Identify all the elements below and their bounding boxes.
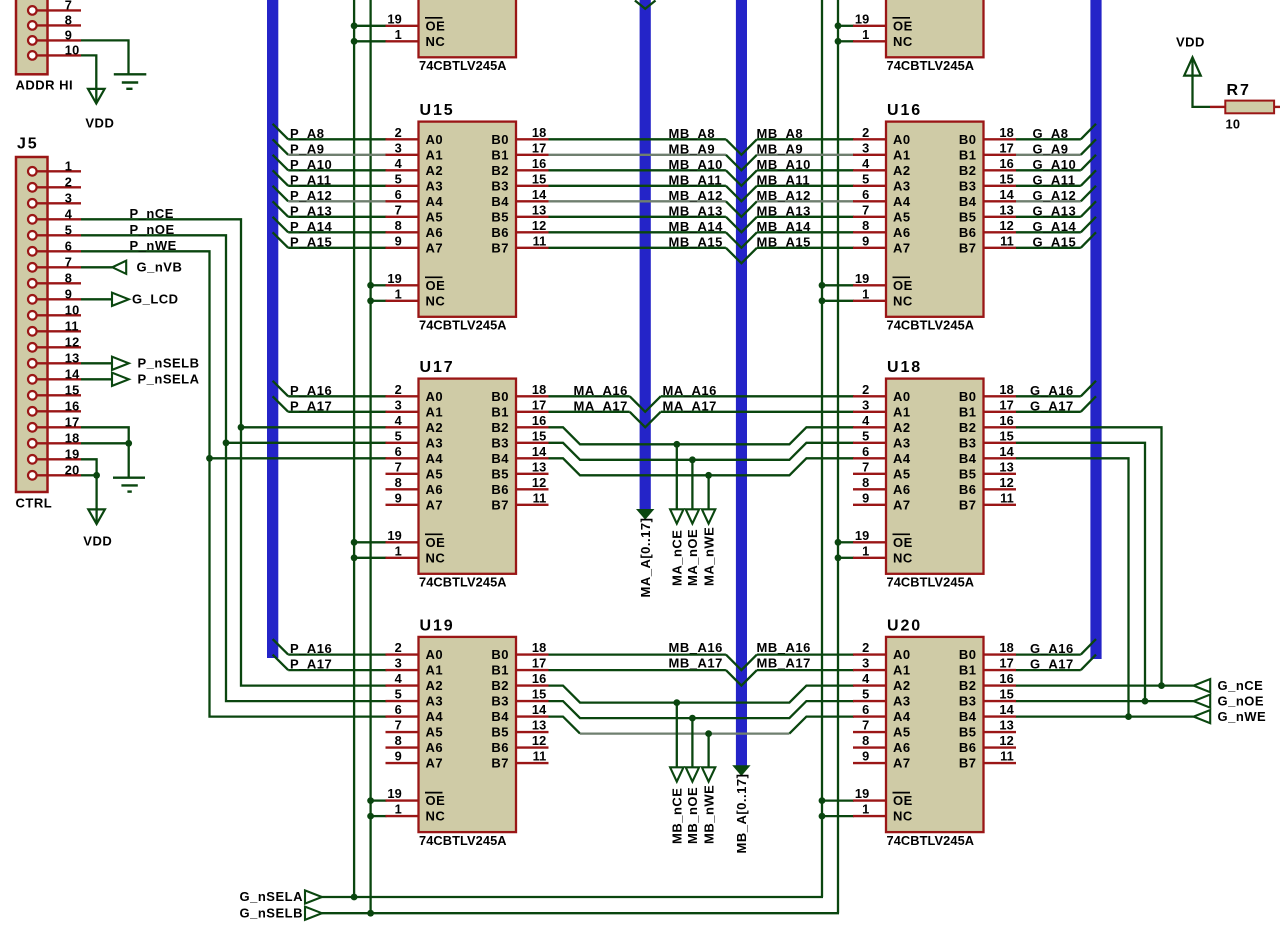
- svg-text:7: 7: [395, 459, 402, 474]
- wire U19.B2 to U20.A2 (jogged net): [549, 686, 855, 703]
- svg-text:B2: B2: [959, 163, 977, 178]
- IC U20 74CBTLV245A body: [886, 637, 984, 832]
- svg-text:14: 14: [999, 187, 1014, 202]
- svg-text:B4: B4: [959, 709, 977, 724]
- svg-text:B5: B5: [959, 466, 977, 481]
- svg-text:ADDR HI: ADDR HI: [16, 78, 74, 93]
- wire P_A15 bus entry from P bus: [273, 232, 289, 248]
- svg-text:MB_nCE: MB_nCE: [670, 788, 685, 844]
- svg-text:MA_A17: MA_A17: [663, 398, 717, 413]
- wire U19.B3 to U20.A3 (jogged net): [549, 701, 855, 718]
- svg-text:MB_nOE: MB_nOE: [685, 787, 700, 844]
- wire MB_A9 from U15.B1 to MB bus: [549, 154, 726, 156]
- svg-text:3: 3: [395, 397, 402, 412]
- svg-text:A0: A0: [426, 389, 444, 404]
- wire P_A11 to U15.A3: [288, 185, 386, 187]
- svg-text:5: 5: [862, 428, 869, 443]
- junction P_nOE / U17.A3: [223, 439, 230, 446]
- wire P_A17 bus entry to U19.A1: [273, 655, 289, 671]
- svg-text:11: 11: [1000, 233, 1014, 248]
- svg-text:B0: B0: [491, 647, 509, 662]
- svg-text:MB_A11: MB_A11: [669, 172, 723, 187]
- svg-text:8: 8: [862, 218, 869, 233]
- svg-text:G_nOE: G_nOE: [1218, 693, 1265, 708]
- svg-text:MB_A15: MB_A15: [757, 234, 811, 249]
- svg-text:A3: A3: [893, 435, 911, 450]
- wire P_A13 bus entry from P bus: [273, 201, 289, 217]
- svg-text:16: 16: [999, 671, 1014, 686]
- terminal MA_nCE (down arrow): [670, 509, 683, 523]
- terminal G_nSELB (right-pointing): [305, 907, 322, 920]
- svg-text:A6: A6: [893, 740, 911, 755]
- svg-text:16: 16: [65, 398, 80, 413]
- svg-text:B6: B6: [959, 482, 977, 497]
- svg-text:18: 18: [65, 430, 80, 445]
- svg-text:A0: A0: [893, 132, 911, 147]
- junction MB_nCE: [673, 699, 680, 706]
- wire G_A15 bus entry at G bus: [1081, 232, 1096, 248]
- svg-text:3: 3: [395, 140, 402, 155]
- terminal P_nSELB (right-pointing): [112, 357, 129, 370]
- svg-text:12: 12: [532, 475, 547, 490]
- svg-text:9: 9: [862, 490, 869, 505]
- svg-text:U15: U15: [420, 102, 455, 119]
- svg-text:9: 9: [65, 27, 72, 42]
- resistor R7 right pin: [1274, 106, 1280, 108]
- svg-text:G_nCE: G_nCE: [1218, 678, 1264, 693]
- terminal MB_nWE (down arrow): [702, 767, 715, 781]
- svg-text:A1: A1: [426, 663, 444, 678]
- svg-text:12: 12: [532, 733, 547, 748]
- wire G_A17 from U18.B1 to G bus: [1016, 411, 1081, 413]
- svg-text:P_A16: P_A16: [290, 641, 332, 656]
- svg-text:NC: NC: [426, 550, 446, 565]
- IC U17 OE pin stub (pin 19): [386, 541, 419, 543]
- wire MA_A16 from U17.B0 to MA bus: [549, 395, 630, 397]
- wire MB_A15 bus entry V at MB bus: [726, 248, 757, 263]
- svg-text:7: 7: [862, 718, 869, 733]
- junction G_nSELB / left vertical: [367, 910, 374, 917]
- svg-text:19: 19: [387, 786, 402, 801]
- svg-text:OE: OE: [426, 278, 446, 293]
- svg-text:4: 4: [395, 671, 403, 686]
- svg-text:B2: B2: [491, 678, 509, 693]
- svg-text:A3: A3: [426, 435, 444, 450]
- wire MB_A8 bus entry V at MB bus: [726, 139, 757, 155]
- svg-text:A6: A6: [893, 225, 911, 240]
- junction G_nSELA / left vertical: [351, 894, 358, 901]
- wire G_A9 from U16.B1 to G bus: [1016, 154, 1081, 156]
- wire U17.B3 to U18.A3 (jogged net): [549, 443, 855, 460]
- svg-text:74CBTLV245A: 74CBTLV245A: [887, 833, 975, 848]
- IC U18 74CBTLV245A body: [886, 379, 984, 574]
- svg-text:B4: B4: [959, 451, 977, 466]
- svg-text:MB_nWE: MB_nWE: [701, 785, 716, 844]
- svg-text:U18: U18: [887, 359, 922, 376]
- wire G_A17 from U20.B1 to G bus: [1016, 669, 1081, 671]
- bus G_A[0..17] (right vertical blue bus): [1090, 0, 1101, 659]
- svg-text:MB_A12: MB_A12: [669, 188, 723, 203]
- svg-text:A0: A0: [893, 647, 911, 662]
- connector ADDR HI pin stubs: [36, 9, 81, 11]
- svg-text:OE: OE: [893, 793, 913, 808]
- wire U17.B2 to U18.A2 (jogged net): [549, 427, 855, 444]
- bus MA_A[0..17] top entry chevron: [635, 1, 656, 9]
- svg-text:74CBTLV245A: 74CBTLV245A: [419, 58, 507, 73]
- svg-text:2: 2: [862, 382, 869, 397]
- wire U19 OE to select vertical: [371, 799, 387, 801]
- svg-text:A2: A2: [426, 678, 444, 693]
- svg-text:1: 1: [862, 802, 869, 817]
- svg-text:9: 9: [395, 233, 402, 248]
- svg-text:B4: B4: [959, 194, 977, 209]
- svg-text:1: 1: [65, 158, 72, 173]
- wire U20 NC to select vertical: [822, 815, 854, 817]
- svg-text:16: 16: [532, 413, 547, 428]
- bus MA_A[0..17] (vertical blue bus): [640, 0, 651, 511]
- svg-text:NC: NC: [426, 809, 446, 824]
- wire ADDR HI pin10 to VDD: [81, 55, 96, 102]
- wire J5 pin9 to terminal G_LCD: [81, 298, 112, 300]
- junction J5 pin18: [125, 440, 132, 447]
- junction U15 OE: [367, 282, 374, 289]
- svg-text:NC: NC: [893, 550, 913, 565]
- svg-text:G_A14: G_A14: [1033, 219, 1077, 234]
- junction U19 NC: [367, 813, 374, 820]
- svg-text:G_A13: G_A13: [1033, 203, 1077, 218]
- wire MB_A8 from U15.B0 to MB bus: [549, 138, 726, 140]
- wire U13 OE to select vertical: [354, 25, 386, 27]
- terminal MA_nOE (down arrow): [686, 509, 699, 523]
- junction MA_nWE: [705, 472, 712, 479]
- junction MA_nCE: [673, 441, 680, 448]
- svg-text:B3: B3: [959, 694, 977, 709]
- svg-text:18: 18: [532, 125, 547, 140]
- svg-text:U19: U19: [420, 617, 455, 634]
- wire P_A9 bus entry from P bus: [273, 139, 289, 155]
- wire U20 OE to select vertical: [822, 799, 854, 801]
- ground symbol (top left): [114, 73, 147, 75]
- svg-text:G_A10: G_A10: [1033, 157, 1077, 172]
- svg-text:9: 9: [862, 233, 869, 248]
- svg-text:11: 11: [533, 749, 547, 764]
- svg-text:A5: A5: [426, 466, 444, 481]
- svg-text:4: 4: [862, 671, 870, 686]
- svg-text:19: 19: [387, 271, 402, 286]
- wire MB_A13 bus entry V at MB bus: [726, 217, 757, 233]
- wire MB_A16 from U19.B0 to MB bus: [549, 653, 726, 655]
- svg-text:G_A11: G_A11: [1033, 172, 1076, 187]
- IC U20 right pin stubs (pins 18-11): [984, 653, 1017, 655]
- svg-text:B0: B0: [491, 389, 509, 404]
- svg-text:19: 19: [387, 11, 402, 26]
- wire P_A14 bus entry from P bus: [273, 217, 289, 233]
- wire G_A11 from U16.B3 to G bus: [1016, 185, 1081, 187]
- wire U18.B2 right and down to G_nCE row: [1016, 427, 1162, 685]
- svg-text:4: 4: [862, 413, 870, 428]
- svg-text:A7: A7: [893, 497, 911, 512]
- wire P_A9 to U15.A1: [288, 154, 386, 156]
- wire MB_A13 from U15.B5 to MB bus: [549, 216, 726, 218]
- svg-text:G_A15: G_A15: [1033, 234, 1077, 249]
- connector J5 pin circles: [28, 167, 37, 176]
- svg-text:74CBTLV245A: 74CBTLV245A: [419, 575, 507, 590]
- svg-text:12: 12: [999, 475, 1014, 490]
- wire P_A12 bus entry from P bus: [273, 186, 289, 202]
- wire into VDD symbol tip: [95, 509, 97, 522]
- terminal MB_nOE (down arrow): [686, 767, 699, 781]
- svg-text:B3: B3: [959, 178, 977, 193]
- svg-text:B1: B1: [491, 147, 509, 162]
- svg-text:B2: B2: [959, 420, 977, 435]
- ground symbol (below J5): [113, 477, 145, 479]
- wire G_nSELB horizontal run: [305, 912, 839, 914]
- svg-text:6: 6: [395, 702, 402, 717]
- svg-text:6: 6: [862, 444, 869, 459]
- IC U16 OE pin stub (pin 19): [853, 284, 886, 286]
- wire J5 pin14 to terminal P_nSELA: [81, 378, 112, 380]
- svg-text:15: 15: [532, 428, 547, 443]
- svg-text:A4: A4: [893, 451, 911, 466]
- junction U16 OE: [819, 282, 826, 289]
- bus MA_A[0..17] end arrow: [636, 509, 654, 520]
- wire U20.B2 to terminal G_nCE: [1016, 684, 1194, 686]
- wire MB_A17 from MB bus to U20.A1: [757, 669, 854, 671]
- svg-text:5: 5: [65, 222, 72, 237]
- wire G_A12 from U16.B4 to G bus: [1016, 200, 1081, 202]
- svg-text:P_nOE: P_nOE: [130, 222, 175, 237]
- wire MB_A8 from MB bus to U16.A0: [757, 138, 854, 140]
- svg-text:A1: A1: [893, 663, 911, 678]
- svg-text:16: 16: [999, 413, 1014, 428]
- connector ADDR HI (partial, pins 7-10): [16, 0, 48, 74]
- connector J5 (20-pin header): [16, 157, 48, 492]
- wire net G_nSELB left vertical (x=371): [369, 0, 371, 913]
- svg-text:MA_A17: MA_A17: [574, 398, 628, 413]
- wire G_A13 from U16.B5 to G bus: [1016, 216, 1081, 218]
- connector J5 pin stubs: [36, 170, 81, 172]
- svg-text:R7: R7: [1227, 82, 1251, 99]
- wire U16 OE to select vertical: [822, 284, 854, 286]
- svg-text:2: 2: [395, 382, 402, 397]
- junction at (1145.0,701.1): [1142, 698, 1149, 705]
- svg-text:CTRL: CTRL: [16, 496, 53, 511]
- IC U17 74CBTLV245A body: [419, 379, 517, 574]
- svg-text:A7: A7: [893, 756, 911, 771]
- svg-text:16: 16: [532, 156, 547, 171]
- junction MA_nOE: [689, 456, 696, 463]
- IC U14 74CBTLV245A body: [886, 0, 984, 57]
- svg-text:8: 8: [65, 12, 72, 27]
- wire net G_nSELA right vertical (x=822): [821, 0, 823, 897]
- svg-text:P_A17: P_A17: [290, 657, 332, 672]
- svg-text:18: 18: [532, 382, 547, 397]
- wire P_A8 to U15.A0: [288, 138, 386, 140]
- power VDD symbol (below J5, down triangle): [88, 509, 105, 524]
- svg-text:P_nSELB: P_nSELB: [138, 356, 200, 371]
- svg-text:MB_A13: MB_A13: [757, 203, 811, 218]
- wire MB_A10 from U15.B2 to MB bus: [549, 169, 726, 171]
- IC U16 74CBTLV245A body: [886, 122, 984, 317]
- svg-text:A6: A6: [426, 225, 444, 240]
- svg-text:G_A16: G_A16: [1030, 641, 1074, 656]
- svg-text:8: 8: [65, 270, 72, 285]
- wire MB_A10 bus entry V at MB bus: [726, 170, 757, 186]
- svg-text:A1: A1: [426, 147, 444, 162]
- IC U14 NC pin stub (pin 1): [853, 40, 886, 42]
- svg-text:12: 12: [999, 733, 1014, 748]
- wire MB_A11 from MB bus to U16.A3: [757, 185, 854, 187]
- svg-text:74CBTLV245A: 74CBTLV245A: [419, 833, 507, 848]
- junction U16 NC: [819, 297, 826, 304]
- svg-text:A6: A6: [893, 482, 911, 497]
- wire P_A16 bus entry to U17.A0: [273, 381, 289, 397]
- connector ADDR HI pin circles: [28, 6, 37, 15]
- svg-text:MA_A[0..17]: MA_A[0..17]: [638, 518, 653, 598]
- svg-text:17: 17: [532, 656, 547, 671]
- power VDD symbol (top left, down triangle): [88, 89, 105, 104]
- svg-text:7: 7: [395, 202, 402, 217]
- IC U20 left pin stubs (pins 2-9): [853, 653, 886, 655]
- svg-text:17: 17: [999, 656, 1014, 671]
- svg-text:B1: B1: [959, 663, 977, 678]
- wire G_A16 from U20.B0 to G bus: [1016, 653, 1081, 655]
- svg-text:8: 8: [395, 218, 402, 233]
- wire P_A11 bus entry from P bus: [273, 170, 289, 186]
- svg-text:12: 12: [65, 334, 80, 349]
- svg-text:B0: B0: [491, 132, 509, 147]
- svg-text:7: 7: [862, 459, 869, 474]
- svg-text:B6: B6: [491, 482, 509, 497]
- wire G_A14 from U16.B6 to G bus: [1016, 231, 1081, 233]
- svg-text:A4: A4: [426, 451, 444, 466]
- svg-text:P_nSELA: P_nSELA: [138, 372, 200, 387]
- IC U19 left pin stubs (pins 2-9): [386, 653, 419, 655]
- junction U20 NC: [819, 813, 826, 820]
- svg-text:7: 7: [395, 718, 402, 733]
- svg-text:A4: A4: [426, 194, 444, 209]
- svg-text:NC: NC: [426, 293, 446, 308]
- svg-text:G_nVB: G_nVB: [137, 260, 183, 275]
- svg-text:16: 16: [999, 156, 1014, 171]
- terminal G_nCE (left-pointing input triangle): [1194, 679, 1211, 692]
- svg-text:13: 13: [65, 350, 80, 365]
- svg-text:5: 5: [395, 687, 402, 702]
- svg-text:P_A16: P_A16: [290, 383, 332, 398]
- svg-text:1: 1: [395, 802, 402, 817]
- bus MB_A[0..17] (vertical blue bus): [736, 0, 747, 767]
- svg-text:MB_A17: MB_A17: [757, 656, 811, 671]
- svg-text:5: 5: [395, 171, 402, 186]
- svg-text:A2: A2: [426, 420, 444, 435]
- wire G_A12 bus entry at G bus: [1081, 186, 1096, 202]
- svg-text:B7: B7: [959, 240, 977, 255]
- svg-text:10: 10: [65, 42, 80, 57]
- wire P_A17 bus entry to U17.A1: [273, 396, 289, 412]
- svg-text:G_LCD: G_LCD: [132, 292, 179, 307]
- wire MB_A15 from U15.B7 to MB bus: [549, 247, 726, 249]
- wire MB_A17 from U19.B1 to MB bus: [549, 669, 726, 671]
- IC U17 NC pin stub (pin 1): [386, 557, 419, 559]
- svg-text:1: 1: [862, 543, 869, 558]
- svg-text:16: 16: [532, 671, 547, 686]
- wire J5 pin13 to terminal P_nSELB: [81, 362, 112, 364]
- svg-text:4: 4: [862, 156, 870, 171]
- junction U17 OE: [351, 539, 358, 546]
- svg-text:19: 19: [855, 528, 870, 543]
- svg-text:11: 11: [533, 233, 547, 248]
- svg-text:4: 4: [395, 413, 403, 428]
- junction MB_nOE: [689, 715, 696, 722]
- svg-text:1: 1: [862, 27, 869, 42]
- svg-text:B1: B1: [491, 404, 509, 419]
- svg-text:1: 1: [395, 27, 402, 42]
- svg-text:74CBTLV245A: 74CBTLV245A: [887, 58, 975, 73]
- IC U20 NC pin stub (pin 1): [853, 815, 886, 817]
- svg-text:OE: OE: [893, 18, 913, 33]
- svg-text:A7: A7: [426, 240, 444, 255]
- svg-text:3: 3: [65, 190, 72, 205]
- svg-text:G_nWE: G_nWE: [1218, 709, 1267, 724]
- svg-text:6: 6: [862, 702, 869, 717]
- svg-text:14: 14: [532, 444, 547, 459]
- junction U18 NC: [835, 554, 842, 561]
- svg-text:A5: A5: [426, 209, 444, 224]
- svg-text:A1: A1: [893, 404, 911, 419]
- wire G_A8 bus entry at G bus: [1081, 124, 1096, 140]
- svg-text:9: 9: [395, 749, 402, 764]
- wire P_nWE from J5.6 down to U17.A4 and U19.A4: [81, 251, 387, 716]
- svg-text:B7: B7: [959, 497, 977, 512]
- terminal MA_nWE (down arrow): [702, 509, 715, 523]
- svg-text:4: 4: [395, 156, 403, 171]
- bus MB_A[0..17] end arrow: [732, 765, 750, 776]
- svg-text:4: 4: [65, 206, 73, 221]
- svg-text:B5: B5: [491, 725, 509, 740]
- svg-text:B2: B2: [491, 163, 509, 178]
- wire U18 NC to select vertical: [838, 557, 854, 559]
- svg-text:J5: J5: [17, 136, 39, 153]
- svg-text:P_A11: P_A11: [290, 172, 332, 187]
- IC U16 NC pin stub (pin 1): [853, 300, 886, 302]
- svg-text:B5: B5: [491, 209, 509, 224]
- junction at (1128.5,716.6): [1125, 713, 1132, 720]
- svg-text:8: 8: [862, 475, 869, 490]
- wire U19.B4 to U20.A4 (jogged net): [549, 717, 581, 734]
- svg-text:B6: B6: [491, 225, 509, 240]
- svg-text:B7: B7: [959, 756, 977, 771]
- wire G_A10 bus entry at G bus: [1081, 155, 1096, 171]
- wire MB_A12 bus entry V at MB bus: [726, 201, 757, 217]
- wire U18.B3 right and down to G_nOE row: [1016, 443, 1146, 701]
- svg-text:A6: A6: [426, 482, 444, 497]
- svg-text:G_A12: G_A12: [1033, 188, 1077, 203]
- svg-text:OE: OE: [426, 793, 446, 808]
- IC U19 74CBTLV245A body: [419, 637, 517, 832]
- svg-text:8: 8: [395, 475, 402, 490]
- wire MA_A17 bus entry V at MA bus: [630, 412, 661, 428]
- svg-text:MB_A8: MB_A8: [757, 126, 804, 141]
- svg-text:B6: B6: [491, 740, 509, 755]
- wire P_A16 bus entry to U19.A0: [273, 639, 289, 655]
- svg-text:9: 9: [862, 749, 869, 764]
- svg-text:P_A13: P_A13: [290, 203, 332, 218]
- svg-text:MB_A[0..17]: MB_A[0..17]: [734, 774, 749, 854]
- svg-text:B3: B3: [491, 694, 509, 709]
- svg-text:A7: A7: [426, 497, 444, 512]
- wire P_nOE from J5.5 down to U17.A3 and U19.A3: [81, 235, 387, 701]
- junction U13 OE: [351, 22, 358, 29]
